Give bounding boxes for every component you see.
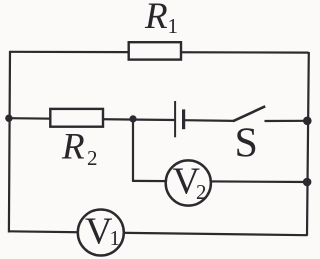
node: right V2-row dot: [303, 178, 312, 187]
label R1: [144, 0, 178, 38]
wire: bottom horizontal: [9, 231, 307, 235]
wire: switch right contact to right rail: [265, 120, 308, 122]
resistor R1: [129, 42, 181, 59]
wire: V2 branch vertical: [132, 119, 134, 181]
battery cell: long plate: [174, 101, 176, 137]
wire: left vertical: [9, 51, 10, 233]
node: right switch-row dot: [303, 117, 312, 126]
svg-text:S: S: [235, 121, 258, 167]
switch S blade: [233, 106, 265, 121]
voltmeter V2: [166, 160, 211, 205]
wire: V2 branch horizontal: [132, 181, 308, 182]
label R2: [61, 127, 98, 171]
node: left junction dot: [5, 115, 12, 122]
svg-text:1: 1: [110, 226, 121, 250]
svg-text:2: 2: [87, 146, 98, 170]
svg-text:R: R: [144, 0, 168, 37]
svg-text:2: 2: [196, 180, 207, 204]
node: middle junction dot: [129, 115, 136, 122]
wire: battery to switch: [184, 119, 234, 122]
svg-text:1: 1: [168, 14, 179, 38]
wire: right vertical: [307, 52, 309, 236]
resistor R2: [50, 109, 103, 127]
wire: top horizontal: [10, 51, 309, 54]
voltmeter V1: [78, 210, 124, 256]
battery cell: short plate: [182, 109, 185, 129]
svg-text:R: R: [61, 127, 85, 168]
wire: middle row left (node A to battery): [9, 118, 175, 120]
